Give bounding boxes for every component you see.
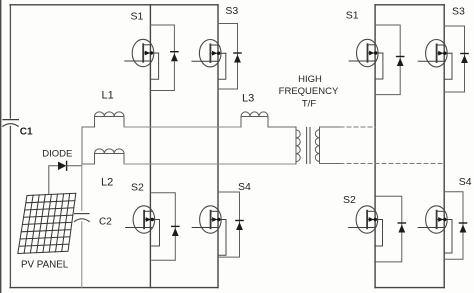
- wire: left bridge top rail: [10, 4, 218, 6]
- capacitor C1 plate: [3, 119, 18, 121]
- svg-text:FREQUENCY: FREQUENCY: [279, 86, 339, 97]
- svg-text:DIODE: DIODE: [42, 148, 72, 159]
- inductor L1: [95, 112, 125, 127]
- body diode of S4 (S4 right bridge): [459, 223, 466, 233]
- inductor L3: [241, 112, 268, 127]
- wire: left bridge leg A (S1/S2): [149, 5, 151, 288]
- wire: right bridge bottom rail: [375, 287, 444, 289]
- svg-text:S2: S2: [131, 182, 144, 194]
- svg-text:L2: L2: [101, 177, 113, 189]
- wire: right bridge leg C (S1/S2): [374, 5, 376, 288]
- inductor L2: [95, 149, 125, 164]
- svg-text:S3: S3: [225, 5, 238, 17]
- svg-text:S1: S1: [346, 9, 359, 21]
- wire: C2 branch upper segment: [81, 164, 83, 211]
- PV panel: [18, 193, 76, 253]
- svg-text:C2: C2: [99, 217, 112, 228]
- MOSFET S3 (S3 right bridge): transistor symbol: [418, 40, 452, 80]
- wire: secondary top dashed link to right leg C: [340, 126, 375, 128]
- wire: line2 diode cathode to node: [67, 165, 82, 167]
- wire: C2 branch lower segment to bottom rail: [81, 222, 83, 288]
- body diode of S4 (S4 left bridge): [236, 221, 243, 231]
- wire: right bridge top rail: [375, 4, 444, 6]
- scan edge artifact line (left border): [0, 0, 2, 293]
- MOSFET S2 (S2 left bridge): transistor symbol: [126, 206, 160, 246]
- MOSFET switch S1 (S1 left bridge): body-diode branch: [151, 25, 175, 91]
- body diode of S2 (S2 right bridge): [398, 223, 405, 233]
- wire: secondary top stub: [320, 126, 341, 128]
- svg-text:L3: L3: [242, 93, 254, 105]
- capacitor C1 curved plate: [3, 124, 18, 127]
- wire: line2 node to L2: [82, 163, 95, 165]
- MOSFET S4 (S4 left bridge): transistor symbol: [192, 206, 226, 255]
- wire: left bridge bottom rail: [10, 287, 218, 289]
- MOSFET S3 (S3 left bridge): transistor symbol: [192, 40, 226, 80]
- wire: secondary bottom dashed link to right leg D: [340, 163, 444, 165]
- svg-text:C1: C1: [20, 127, 33, 138]
- MOSFET S1 (S1 right bridge): transistor symbol: [349, 39, 383, 79]
- capacitor C2 curved plate: [74, 219, 89, 222]
- transformer core: [307, 128, 310, 164]
- MOSFET switch S4 (S4 right bridge): body-diode branch: [444, 192, 463, 260]
- MOSFET switch S3 (S3 left bridge): body-diode branch: [218, 24, 238, 90]
- wire: secondary bottom stub: [320, 163, 341, 165]
- diode (PV blocking diode): [58, 161, 67, 170]
- MOSFET switch S4 (S4 left bridge): body-diode branch: [218, 192, 239, 257]
- MOSFET S4 (S4 right bridge): transistor symbol: [418, 206, 452, 253]
- MOSFET switch S2 (S2 right bridge): body-diode branch: [375, 196, 402, 262]
- svg-text:S4: S4: [459, 176, 472, 188]
- wire: line1 segment from riser to L1: [82, 126, 95, 128]
- svg-text:S1: S1: [131, 10, 144, 22]
- MOSFET S1 (S1 left bridge): transistor symbol: [125, 39, 159, 79]
- transformer primary winding: [296, 127, 300, 164]
- PV panel grid lines: [19, 194, 75, 254]
- wire: node riser x=82 between line1 and line2: [81, 127, 83, 164]
- body diode of S1 (S1 left bridge): [171, 52, 178, 62]
- capacitor C2 plate: [75, 213, 89, 215]
- MOSFET S2 (S2 right bridge): transistor symbol: [349, 206, 383, 246]
- svg-text:S4: S4: [238, 181, 251, 193]
- wire: line1 from L1 to L3 (crosses legs A and B): [124, 126, 241, 128]
- body diode of S3 (S3 right bridge): [461, 54, 468, 64]
- MOSFET switch S1 (S1 right bridge): body-diode branch: [375, 25, 400, 95]
- svg-text:PV PANEL: PV PANEL: [21, 259, 69, 270]
- MOSFET switch S3 (S3 right bridge): body-diode branch: [444, 26, 464, 92]
- wire: left rail upper segment (above C1): [9, 5, 11, 118]
- transformer secondary winding: [315, 127, 319, 164]
- wire: line2 from L2 to transformer primary bottom (crosses legs A and B): [124, 163, 296, 165]
- wire: right bridge leg D (S3/S4): [443, 5, 445, 288]
- MOSFET switch S2 (S2 left bridge): body-diode branch: [152, 193, 176, 261]
- wire: diode anode lead with drop to PV panel: [49, 166, 58, 194]
- label HIGH FREQUENCY T/F: [279, 74, 339, 110]
- body diode of S1 (S1 right bridge): [397, 57, 404, 67]
- svg-text:HIGH: HIGH: [298, 74, 322, 85]
- wire: line1 from L3 to transformer primary top: [268, 126, 296, 128]
- body diode of S2 (S2 left bridge): [172, 226, 179, 236]
- svg-text:S2: S2: [343, 194, 356, 206]
- svg-text:S3: S3: [452, 5, 465, 17]
- svg-text:L1: L1: [102, 90, 114, 102]
- body diode of S3 (S3 left bridge): [234, 53, 241, 63]
- wire: left rail lower segment (below C1): [9, 127, 11, 288]
- wire: left bridge leg B (S3/S4): [217, 5, 219, 288]
- svg-text:T/F: T/F: [302, 99, 316, 110]
